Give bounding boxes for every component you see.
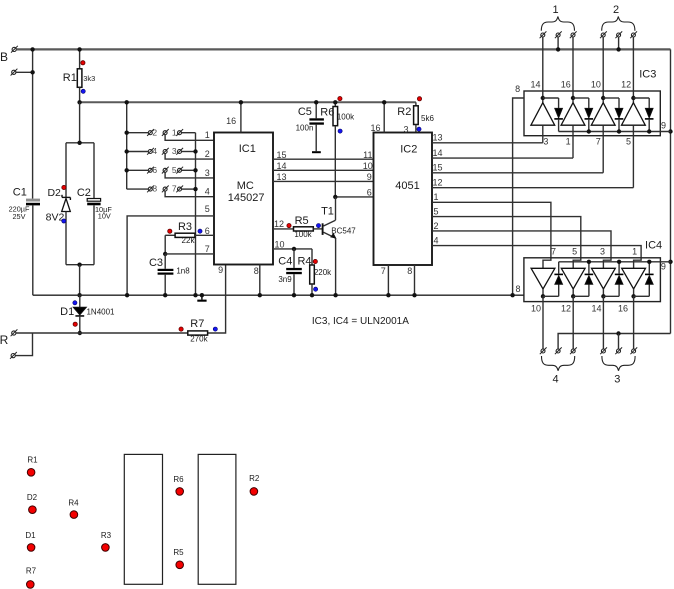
svg-text:100k: 100k [337, 113, 355, 122]
resistor R6 [334, 102, 336, 106]
marker R7 blue [213, 327, 217, 331]
svg-text:12: 12 [621, 80, 631, 90]
wire: top +V rail from B to right edge [16, 48, 670, 50]
PCB pad R3 [102, 544, 110, 552]
svg-text:7: 7 [596, 137, 601, 147]
connector group 2 circles [601, 33, 605, 37]
svg-text:4: 4 [433, 235, 438, 245]
wire: IC2 pin 6 line [335, 196, 373, 198]
junction on ground rail at D2/C2 [77, 293, 81, 297]
junction odd bus row 3 [193, 168, 197, 172]
IC4 driver 2 output junction [572, 289, 574, 296]
svg-text:B: B [0, 50, 8, 64]
svg-text:9: 9 [661, 262, 666, 272]
wire: right-side +V riser to IC3/IC4 pin 9 and outputs common [670, 49, 672, 333]
svg-text:R2: R2 [249, 474, 260, 483]
svg-text:8: 8 [254, 266, 259, 276]
marker R5 blue [316, 224, 320, 228]
svg-text:5: 5 [205, 204, 210, 214]
junction group2 stub [616, 47, 620, 51]
marker R1 blue [81, 89, 85, 93]
svg-text:8: 8 [515, 284, 520, 294]
IC4 clamp diode 3 [618, 284, 620, 296]
wire: row 4 common to IC1 pin 4 [165, 191, 214, 197]
IC4 driver 3 output junction [602, 289, 604, 296]
IC3 driver 3 output wire from connector [602, 37, 604, 103]
marker R7 red [179, 327, 183, 331]
junction even bus row 1 [125, 131, 129, 135]
junction R1 bottom [77, 100, 81, 104]
svg-text:R6: R6 [173, 475, 184, 484]
wire: row 3 odd contact to odd bus [182, 169, 196, 171]
wire: IC1 pin 7 [165, 253, 214, 255]
svg-text:D1: D1 [25, 531, 36, 540]
marker D2 red [62, 185, 66, 189]
wire: D2-C2 bottom bracket [66, 264, 94, 266]
marker R2 red [417, 97, 421, 101]
svg-text:3: 3 [403, 125, 408, 135]
box IC4 ULN2001A lower [524, 258, 661, 302]
junction C4 ground [292, 293, 296, 297]
marker D1 red [73, 322, 77, 326]
IC3 driver 4 triangle [622, 103, 646, 126]
connector group 3 circles [601, 349, 605, 353]
wire: IC1 pin 13 to IC2 pin 9 [273, 180, 374, 182]
svg-text:14: 14 [276, 161, 286, 171]
capacitor C1 [26, 199, 40, 202]
brace group 3 [602, 356, 635, 371]
svg-text:3n9: 3n9 [278, 275, 292, 284]
marker R6 blue [338, 129, 342, 133]
wire: row 4 odd contact to odd bus [182, 188, 196, 190]
svg-text:T1: T1 [321, 205, 334, 217]
svg-text:15: 15 [432, 163, 442, 173]
svg-text:7: 7 [381, 266, 386, 276]
IC3 driver 3 input wire [602, 125, 604, 173]
IC3 driver 1 triangle [531, 103, 555, 126]
capacitor C2 [93, 143, 95, 199]
svg-text:12: 12 [274, 219, 284, 229]
terminal R pin 1 [12, 331, 16, 335]
wire: bottom commons line to right riser [558, 334, 670, 349]
marker R1 red [81, 61, 85, 65]
marker D1 blue [73, 301, 77, 305]
IC4 driver 3 output wire to connector [602, 296, 604, 349]
svg-text:14: 14 [432, 148, 442, 158]
svg-text:R: R [0, 333, 9, 347]
junction C4 tap [292, 247, 296, 251]
switch row 2: contact 4 [127, 151, 149, 153]
junction R6/T1/IC2pin6 [333, 195, 337, 199]
svg-text:R7: R7 [26, 566, 37, 575]
svg-text:9: 9 [661, 120, 666, 130]
junction group3 stub [616, 331, 620, 335]
svg-text:D2: D2 [27, 493, 38, 502]
IC4 pin 9 internal common line [559, 261, 671, 263]
junction even bus top [125, 100, 129, 104]
svg-text:IC3: IC3 [639, 68, 656, 80]
PCB pad R1 [27, 469, 35, 477]
wire: IC1 pin 15 to IC2 pin 11 [273, 158, 374, 160]
wire: B pin2 to vertical [16, 71, 33, 73]
PCB rectangle 2 [198, 454, 236, 584]
svg-text:5: 5 [626, 137, 631, 147]
marker R4 red [313, 259, 317, 263]
junction IC3 diode 4 on pin9 line [647, 129, 651, 133]
IC3 driver 2 output wire from connector [572, 37, 574, 103]
brace group 1 [541, 17, 574, 31]
junction R4 ground [310, 293, 314, 297]
wire: IC2 pin 5 to IC4 input [432, 217, 581, 269]
brace group 4 [542, 356, 575, 371]
junction even bus row 2 [125, 149, 129, 153]
svg-text:R6: R6 [320, 106, 334, 118]
svg-text:1n8: 1n8 [176, 266, 190, 275]
svg-text:IC4: IC4 [645, 239, 662, 251]
svg-text:14: 14 [530, 80, 540, 90]
wire: node to D2/C2 bracket [79, 102, 81, 143]
junction B rail [30, 47, 34, 51]
switch row 3: contact 6 [127, 169, 149, 171]
svg-text:2: 2 [613, 4, 619, 16]
resistor R1 [79, 49, 81, 68]
op-amp-style box IC1 MC145027 [214, 133, 273, 265]
svg-text:9: 9 [367, 172, 372, 182]
marker R3 red [168, 229, 172, 233]
svg-text:13: 13 [432, 133, 442, 143]
resistor R2 [415, 102, 417, 106]
svg-text:16: 16 [370, 123, 380, 133]
IC3 driver 1 junction to diode [541, 96, 545, 100]
svg-text:10: 10 [363, 161, 373, 171]
IC4 driver 4 output junction [633, 289, 635, 296]
svg-text:100k: 100k [294, 230, 312, 239]
junction D1 on R rail [78, 331, 82, 335]
svg-text:6: 6 [205, 226, 210, 236]
wire: IC2 pin 12 to IC3 input [432, 187, 633, 189]
svg-text:1: 1 [172, 127, 177, 137]
IC2 pin 8 wire [414, 265, 416, 295]
switch row 2: common contact [163, 150, 167, 154]
wire: group2 center stub to +V rail [618, 37, 620, 49]
switch row 3: common contact [163, 168, 167, 172]
capacitor C3 [164, 254, 166, 269]
junction IC4 diode 3 on pin9 line [617, 260, 621, 264]
junction even bus row 3 [125, 168, 129, 172]
zener diode D2 [65, 143, 67, 198]
IC3 driver 4 input wire [632, 125, 634, 188]
svg-text:16: 16 [561, 80, 571, 90]
PCB pad R2 [250, 488, 258, 496]
junction top bracket [77, 141, 81, 145]
svg-text:270k: 270k [190, 335, 208, 344]
switch row 4: common contact [163, 187, 167, 191]
svg-text:D2: D2 [47, 187, 61, 199]
resistor R3 [165, 234, 175, 236]
IC3 clamp diode 1 [558, 98, 560, 108]
IC4 clamp diode 4 [648, 284, 650, 296]
svg-text:2: 2 [152, 127, 157, 137]
terminal B pin 2 [12, 70, 16, 74]
switch row 1: contact 2 [127, 132, 149, 134]
switch row 1: common contact [163, 131, 167, 135]
svg-text:1: 1 [632, 247, 637, 257]
IC3 driver 2 junction to diode [571, 96, 575, 100]
IC3 driver 1 output wire from connector [542, 37, 544, 103]
junction right riser IC4 pin9 [668, 260, 672, 264]
svg-text:R5: R5 [295, 215, 309, 227]
wire: row 2 odd contact to odd bus [182, 151, 196, 153]
wire: R pin2 link [15, 333, 32, 356]
svg-text:8: 8 [515, 84, 520, 94]
IC4 driver 1 triangle [531, 268, 555, 289]
svg-text:3: 3 [600, 247, 605, 257]
junction IC3 diode 2 on pin9 line [587, 129, 591, 133]
marker R6 red [338, 97, 342, 101]
svg-text:12: 12 [432, 178, 442, 188]
svg-text:5: 5 [433, 206, 438, 216]
svg-text:4051: 4051 [395, 180, 419, 192]
svg-text:4: 4 [152, 146, 157, 156]
junction group1 stub [556, 47, 560, 51]
svg-text:R1: R1 [63, 72, 77, 84]
resistor R5 [294, 227, 314, 231]
svg-text:R3: R3 [101, 531, 112, 540]
junction IC3/IC4 pin8 ground [510, 293, 514, 297]
junction C5 on rail [314, 100, 318, 104]
IC4 driver 1 output junction [542, 289, 544, 296]
IC1 pin 16 wire [240, 102, 242, 132]
svg-text:MC: MC [237, 180, 254, 192]
svg-text:R3: R3 [178, 221, 192, 233]
junction IC4 diode 4 on pin9 line [647, 260, 651, 264]
IC3 driver 3 junction to diode [601, 96, 605, 100]
IC4 clamp diode 1 [558, 284, 560, 296]
wire: D2-C2 top bracket [66, 142, 94, 144]
svg-text:10: 10 [531, 303, 541, 313]
svg-text:R2: R2 [397, 106, 411, 118]
svg-text:8: 8 [152, 184, 157, 194]
wire: R rail to IC1 pin9 riser [16, 265, 226, 334]
svg-text:D1: D1 [60, 306, 74, 318]
svg-text:R1: R1 [27, 456, 38, 465]
switch row 4: contact 8 [127, 188, 149, 190]
connector group 1 circles [541, 33, 545, 37]
svg-text:8: 8 [407, 266, 412, 276]
junction C3 ground [163, 293, 167, 297]
wire: IC2 pin 1 to IC4 input [432, 202, 551, 268]
svg-text:6: 6 [367, 187, 372, 197]
IC3 driver 2 triangle [561, 103, 585, 126]
svg-text:7: 7 [551, 247, 556, 257]
transistor T1 BC547 [322, 223, 324, 235]
svg-text:C4: C4 [278, 256, 292, 268]
IC4 driver 4 output wire to connector [633, 296, 635, 349]
junction B pin2 [30, 70, 34, 74]
svg-text:9: 9 [218, 265, 223, 275]
wire: IC1 pin 5 to ground [127, 216, 214, 295]
svg-text:R7: R7 [190, 318, 204, 330]
resistor R4 [311, 249, 313, 265]
junction odd bus row 4 [193, 187, 197, 191]
IC4 driver 1 output wire to connector [542, 296, 544, 349]
svg-text:3k3: 3k3 [83, 74, 95, 83]
svg-text:R4: R4 [297, 256, 311, 268]
svg-text:16: 16 [226, 116, 236, 126]
junction odd bus ground [193, 293, 197, 297]
junction right riser IC3 pin9 [668, 129, 672, 133]
junction odd bus row 2 [193, 149, 197, 153]
svg-text:220k: 220k [314, 268, 332, 277]
svg-text:4: 4 [552, 373, 558, 385]
IC3 driver 4 junction to diode [631, 96, 635, 100]
svg-text:5k6: 5k6 [421, 114, 434, 123]
box IC3 ULN2001A upper [524, 91, 660, 136]
terminal R pin 2 [11, 354, 15, 358]
wire: IC1 pin10 to R4/C4 [273, 248, 312, 250]
wire: ground rail [33, 294, 524, 296]
ground symbol near IC1 pin 7 area [200, 293, 204, 297]
brace group 2 [602, 17, 635, 31]
svg-text:3: 3 [543, 137, 548, 147]
junction R1 top on rail [77, 47, 81, 51]
wire: IC1 pin 14 to IC2 pin 10 [273, 169, 374, 171]
wire: bracket to ground rail [79, 265, 81, 296]
junction IC1 pin5 ground [125, 293, 129, 297]
junction IC1 pin8 ground [258, 293, 262, 297]
wire: R3 left down to pin7 node [164, 235, 166, 254]
svg-text:13: 13 [276, 172, 286, 182]
wire: IC1 pin 8 to ground [259, 265, 261, 296]
svg-text:7: 7 [172, 184, 177, 194]
IC3 clamp diode 2 [588, 98, 590, 108]
svg-text:3: 3 [172, 146, 177, 156]
marker R5 red [287, 224, 291, 228]
capacitor C5 [315, 102, 317, 118]
wire: IC2 pin 13 to IC3 input [432, 142, 543, 144]
svg-text:5: 5 [572, 247, 577, 257]
svg-text:14: 14 [591, 303, 601, 313]
resistor R7 [188, 331, 208, 335]
svg-text:R4: R4 [68, 498, 79, 507]
IC3 driver 4 output wire from connector [632, 37, 634, 103]
terminal B pin 1 [12, 47, 16, 51]
wire: IC1 pin12 to R5 [273, 228, 294, 230]
svg-text:3: 3 [205, 168, 210, 178]
svg-text:5: 5 [172, 165, 177, 175]
wire: row 1 odd contact to odd bus [182, 132, 196, 134]
svg-text:1: 1 [566, 137, 571, 147]
svg-text:145027: 145027 [228, 192, 265, 204]
svg-text:16: 16 [618, 303, 628, 313]
svg-text:25V: 25V [13, 212, 26, 221]
IC3 clamp diode 4 [648, 98, 650, 108]
svg-text:10: 10 [591, 80, 601, 90]
wire: row 3 common to IC1 pin 3 [165, 172, 214, 178]
wire: IC2 pin 14 to IC3 input [432, 157, 573, 159]
capacitor C4 [293, 249, 295, 268]
IC3 pin 8 wire [513, 98, 524, 295]
wire: even switch bus from +V rail [126, 102, 128, 189]
PCB pad R5 [176, 561, 184, 569]
marker R3 blue [198, 229, 202, 233]
svg-text:C5: C5 [298, 106, 312, 118]
wire: IC2 pin 15 to IC3 input [432, 172, 603, 174]
svg-text:C1: C1 [13, 187, 27, 199]
wire: group1 center stub to +V rail [557, 37, 559, 49]
svg-text:15: 15 [276, 150, 286, 160]
junction bottom bracket [77, 263, 81, 267]
IC4 clamp diode 2 [588, 284, 590, 296]
IC3 clamp diode 3 [618, 98, 620, 108]
IC4 driver 2 output wire to connector [572, 296, 574, 349]
svg-text:1: 1 [552, 4, 558, 16]
svg-text:7: 7 [205, 244, 210, 254]
svg-text:1: 1 [205, 130, 210, 140]
wire: group3 center stub [618, 334, 620, 349]
svg-text:1: 1 [433, 192, 438, 202]
wire: odd switch bus to ground [195, 133, 197, 296]
svg-text:IC3, IC4 = ULN2001A: IC3, IC4 = ULN2001A [312, 316, 409, 327]
wire: row 1 common to IC1 pin 1 [165, 135, 214, 141]
junction R6 on rail [333, 100, 337, 104]
svg-text:10: 10 [274, 240, 284, 250]
wire: IC2 pin 4 to IC4 input [432, 246, 641, 269]
svg-text:1N4001: 1N4001 [86, 308, 115, 317]
PCB pad R7 [27, 581, 35, 589]
PCB pad R6 [176, 488, 184, 496]
svg-text:IC1: IC1 [239, 143, 256, 155]
connector group 4 circles [541, 349, 545, 353]
junction R3/C3/pin7 [163, 252, 167, 256]
svg-text:12: 12 [561, 303, 571, 313]
PCB pad R4 [70, 511, 78, 519]
wire: IC2 pin 2 to IC4 input [432, 231, 611, 268]
svg-text:4: 4 [205, 187, 210, 197]
box IC2 4051 [374, 133, 433, 266]
IC3 driver 3 triangle [591, 103, 615, 126]
marker R4 blue [314, 287, 318, 291]
svg-text:3: 3 [614, 373, 620, 385]
junction IC2 pin8 ground [412, 293, 416, 297]
junction IC4 diode 2 on pin9 line [587, 260, 591, 264]
IC3 driver 1 input wire [542, 125, 544, 143]
svg-text:2: 2 [205, 149, 210, 159]
svg-text:BC547: BC547 [331, 226, 356, 235]
junction IC1 pin16 on +V rail [239, 100, 243, 104]
junction IC3 diode 3 on pin9 line [617, 129, 621, 133]
IC4 driver 2 triangle [561, 268, 585, 289]
svg-text:C3: C3 [149, 257, 163, 269]
svg-text:11: 11 [363, 150, 372, 160]
svg-text:R5: R5 [173, 548, 184, 557]
diode D1 1N4001 [79, 295, 81, 307]
svg-text:22k: 22k [182, 236, 196, 245]
svg-text:6: 6 [152, 165, 157, 175]
marker R2 blue [417, 127, 421, 131]
marker D2 blue [62, 219, 66, 223]
PCB rectangle 1 [124, 454, 162, 584]
junction IC2 pin16 rail [382, 100, 386, 104]
wire: row 2 common to IC1 pin 2 [165, 154, 214, 160]
wire: B vertical down to C1 [32, 49, 34, 198]
junction T1 emitter ground [333, 293, 337, 297]
svg-text:100n: 100n [296, 124, 314, 133]
IC2 pin 16 wire [383, 102, 385, 132]
ground symbol under C5 [315, 125, 317, 152]
junction IC2 pin7 ground [386, 293, 390, 297]
PCB pad D1 [27, 544, 35, 552]
